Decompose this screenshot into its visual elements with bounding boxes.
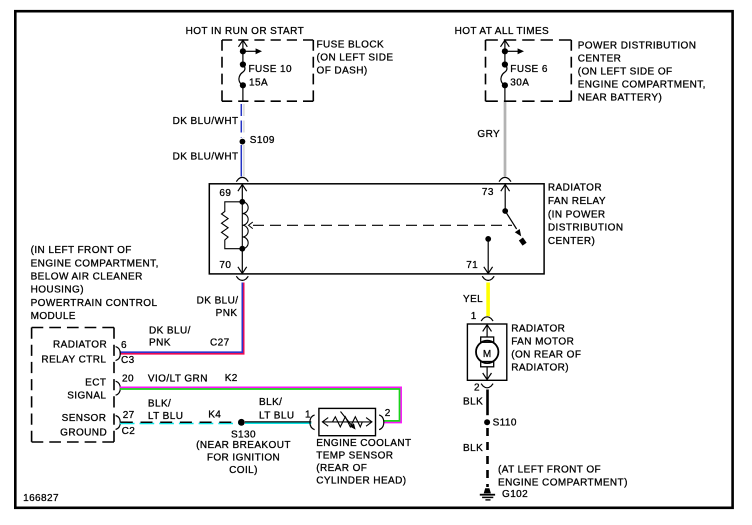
fuse F6 feed arrow [505, 50, 519, 52]
svg-text:ENGINE COOLANT: ENGINE COOLANT [316, 438, 411, 449]
svg-text:FUSE 6: FUSE 6 [510, 64, 548, 75]
svg-text:BLK: BLK [463, 396, 483, 407]
pin 71 arrow [484, 239, 493, 274]
svg-text:71: 71 [466, 260, 478, 271]
svg-text:(IN LEFT FRONT OF: (IN LEFT FRONT OF [31, 245, 132, 256]
wire DK BLU/WHT upper (dashed blue pair) [241, 104, 244, 138]
fuse F6 element [502, 48, 508, 54]
connector cup motor pin 2 [481, 384, 493, 388]
svg-text:BELOW AIR CLEANER: BELOW AIR CLEANER [31, 272, 143, 283]
motor bottom arrow [483, 367, 492, 380]
svg-text:OF DASH): OF DASH) [317, 65, 368, 76]
svg-text:ENGINE COMPARTMENT,: ENGINE COMPARTMENT, [578, 79, 706, 90]
svg-text:HOT IN RUN OR START: HOT IN RUN OR START [186, 26, 305, 37]
fuse F10 top arrow [239, 40, 248, 51]
ECT sensor pin1 paren [310, 415, 315, 430]
fuse block (dashed box) [222, 40, 313, 101]
connector cup pin 70 [236, 276, 248, 280]
svg-text:(ON LEFT SIDE OF: (ON LEFT SIDE OF [578, 66, 673, 77]
motor top arrow [483, 325, 492, 337]
connector cap motor pin 1 [481, 317, 493, 321]
svg-text:MODULE: MODULE [31, 311, 76, 322]
splice S109 [240, 139, 246, 145]
svg-text:CENTER): CENTER) [548, 236, 595, 247]
thermistor RT1 (variable resistor) [322, 412, 372, 427]
svg-text:FOR IGNITION: FOR IGNITION [207, 453, 280, 464]
motor M1 [481, 337, 494, 342]
svg-text:C3: C3 [121, 355, 135, 366]
svg-text:FUSE 10: FUSE 10 [249, 64, 293, 75]
pin 69 arrow [238, 185, 247, 202]
svg-text:30A: 30A [510, 77, 529, 88]
ground G102 [484, 488, 491, 493]
pin 71 node [485, 236, 491, 242]
svg-text:70: 70 [219, 260, 231, 271]
ECT sensor pin2 paren [379, 415, 384, 430]
wire VIO/LT GRN [120, 387, 401, 422]
svg-text:RADIATOR: RADIATOR [548, 183, 602, 194]
connector cap pin 69 [236, 177, 248, 181]
svg-text:BLK/: BLK/ [148, 398, 171, 409]
svg-text:C2: C2 [122, 426, 136, 437]
power distribution center dashed box [486, 40, 572, 101]
svg-text:CYLINDER HEAD): CYLINDER HEAD) [316, 476, 406, 487]
wire BLK dashed [486, 428, 489, 487]
relay switch pivot [502, 208, 508, 214]
svg-text:20: 20 [122, 374, 134, 385]
splice S110 [484, 419, 490, 425]
svg-text:RADIATOR: RADIATOR [511, 323, 565, 334]
wire YEL [486, 283, 490, 317]
svg-text:DISTRIBUTION: DISTRIBUTION [548, 223, 624, 234]
svg-text:27: 27 [123, 410, 135, 421]
svg-text:2: 2 [474, 383, 480, 394]
svg-text:ECT: ECT [85, 377, 106, 388]
wire BLK solid [486, 390, 489, 416]
relay coil node top [239, 199, 245, 205]
svg-text:DK BLU/: DK BLU/ [197, 296, 239, 307]
svg-text:TEMP SENSOR: TEMP SENSOR [316, 451, 393, 462]
svg-text:73: 73 [482, 187, 494, 198]
svg-text:M: M [483, 349, 492, 360]
pin 20 connector paren [116, 381, 121, 395]
wire BLK/LT BLU right segment [245, 422, 311, 424]
wire DK BLU/PNK vertical+horizontal [120, 283, 244, 354]
svg-text:CENTER: CENTER [578, 53, 622, 64]
splice S130 [238, 419, 245, 426]
svg-text:K2: K2 [225, 373, 238, 384]
svg-text:POWERTRAIN CONTROL: POWERTRAIN CONTROL [31, 298, 158, 309]
svg-text:LT BLU: LT BLU [259, 411, 295, 422]
fuse F10 feed arrow [243, 50, 257, 52]
svg-text:GROUND: GROUND [60, 427, 107, 438]
ECT sensor box [319, 408, 376, 435]
svg-text:2: 2 [385, 408, 391, 419]
svg-text:LT BLU: LT BLU [148, 411, 184, 422]
svg-text:G102: G102 [502, 489, 528, 500]
svg-text:1: 1 [471, 311, 477, 322]
svg-text:HOUSING): HOUSING) [31, 285, 84, 296]
svg-text:FAN MOTOR: FAN MOTOR [511, 336, 574, 347]
svg-text:ENGINE COMPARTMENT,: ENGINE COMPARTMENT, [31, 258, 159, 269]
svg-text:DK BLU/: DK BLU/ [149, 325, 191, 336]
svg-text:HOT AT ALL TIMES: HOT AT ALL TIMES [455, 26, 550, 37]
pin 27 connector paren [116, 416, 121, 430]
svg-text:RADIATOR): RADIATOR) [511, 362, 569, 373]
svg-text:SIGNAL: SIGNAL [67, 390, 106, 401]
svg-text:S110: S110 [493, 418, 517, 429]
pin 73 arrow [501, 185, 510, 212]
svg-text:VIO/LT GRN: VIO/LT GRN [148, 374, 208, 385]
svg-text:C27: C27 [210, 337, 230, 348]
relay U1 radiator fan relay box [209, 184, 544, 274]
wire DK BLU/WHT lower (solid blue pair) [241, 145, 244, 177]
relay switch blade [505, 211, 516, 229]
svg-text:6: 6 [121, 340, 127, 351]
fuse F10 element [240, 48, 246, 54]
svg-text:GRY: GRY [477, 129, 500, 140]
svg-text:BLK/: BLK/ [259, 397, 282, 408]
radiator fan motor box [467, 324, 506, 380]
connector cap pin 73 [499, 177, 511, 181]
svg-text:YEL: YEL [463, 294, 483, 305]
svg-text:S109: S109 [250, 135, 275, 146]
svg-text:(IN POWER: (IN POWER [548, 209, 606, 220]
connector cup pin 71 [482, 276, 494, 280]
svg-text:(REAR OF: (REAR OF [316, 463, 367, 474]
svg-text:S130: S130 [231, 429, 256, 440]
svg-text:POWER DISTRIBUTION: POWER DISTRIBUTION [578, 40, 697, 51]
svg-text:RADIATOR: RADIATOR [53, 339, 107, 350]
PCM dashed box [32, 328, 114, 443]
svg-text:FUSE BLOCK: FUSE BLOCK [317, 39, 385, 50]
svg-text:SENSOR: SENSOR [62, 413, 107, 424]
fuse F6 top arrow [501, 40, 510, 51]
svg-text:1: 1 [305, 409, 311, 420]
relay coil node bottom [239, 246, 245, 252]
svg-text:BLK: BLK [463, 443, 483, 454]
svg-text:NEAR BATTERY): NEAR BATTERY) [578, 92, 663, 103]
relay linkage dashed [253, 224, 512, 226]
svg-text:15A: 15A [249, 77, 268, 88]
svg-text:166827: 166827 [23, 493, 59, 504]
resistor R1 (parallel with coil) [222, 202, 243, 249]
svg-text:K4: K4 [208, 409, 221, 420]
svg-text:(ON REAR OF: (ON REAR OF [511, 349, 581, 360]
svg-text:DK BLU/WHT: DK BLU/WHT [173, 152, 239, 163]
svg-text:COIL): COIL) [229, 465, 258, 476]
svg-text:(AT LEFT FRONT OF: (AT LEFT FRONT OF [498, 465, 601, 476]
pin 6 connector paren [116, 347, 121, 361]
svg-text:(ON LEFT SIDE: (ON LEFT SIDE [317, 52, 394, 63]
svg-text:PNK: PNK [216, 308, 238, 319]
relay switch contact [521, 239, 525, 244]
svg-text:RELAY CTRL: RELAY CTRL [41, 354, 106, 365]
svg-text:ENGINE COMPARTMENT): ENGINE COMPARTMENT) [498, 478, 628, 489]
relay coil L1 [241, 202, 243, 249]
svg-text:FAN RELAY: FAN RELAY [548, 196, 606, 207]
svg-text:69: 69 [219, 188, 231, 199]
svg-text:PNK: PNK [149, 337, 171, 348]
svg-text:(NEAR BREAKOUT: (NEAR BREAKOUT [196, 440, 291, 451]
pin 70 arrow [238, 249, 247, 274]
wire BLK/LT BLU left segment [120, 423, 242, 425]
svg-text:DK BLU/WHT: DK BLU/WHT [173, 116, 239, 127]
wire GRY [504, 102, 507, 177]
